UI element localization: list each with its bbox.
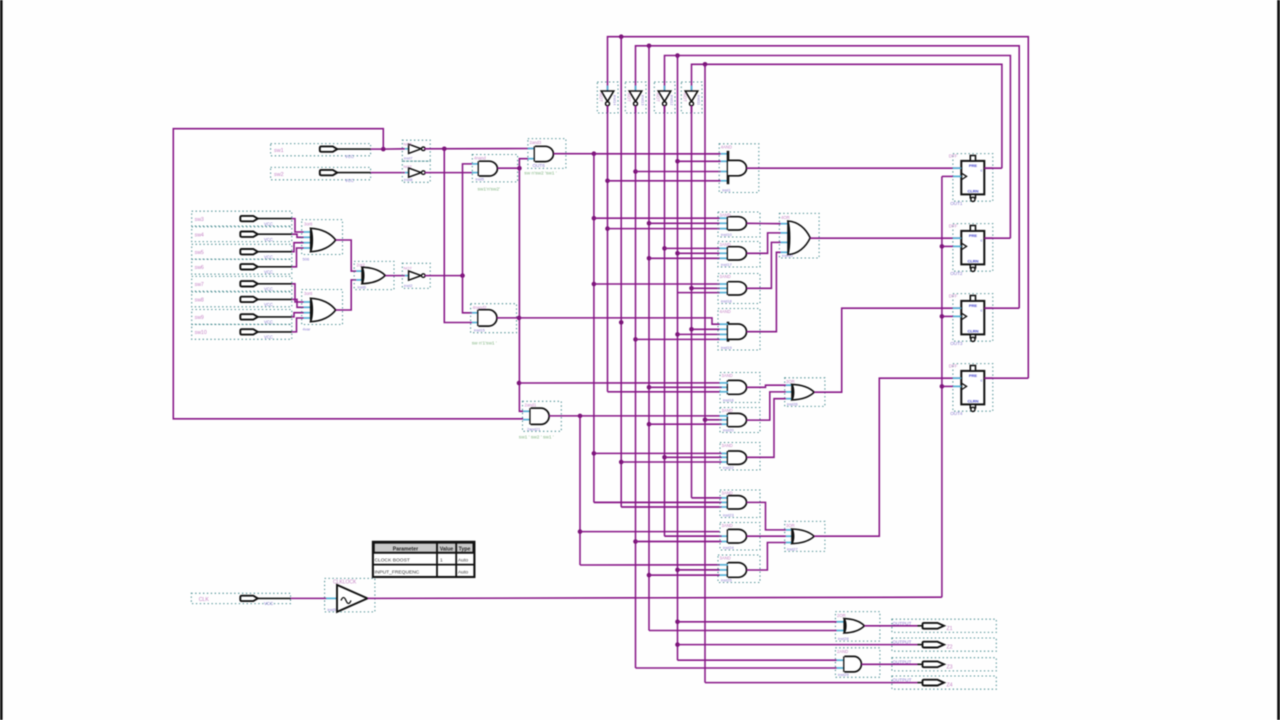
junction rail x=692 y=288 — [689, 286, 694, 291]
svg-text:4nand2: 4nand2 — [473, 305, 488, 310]
wire D out to OR1.in3 — [747, 242, 781, 288]
junction rail x=621 y=322 — [619, 320, 624, 325]
wire input to inst18 y=284 — [594, 283, 720, 285]
wire K out to OR3.in3 — [747, 543, 786, 571]
junction rail x=608 y=229 — [605, 226, 610, 231]
svg-text:sw1'n'sw2': sw1'n'sw2' — [478, 187, 501, 193]
svg-text:3or8: 3or8 — [304, 291, 313, 296]
parameter table — [373, 542, 475, 577]
wire to output Z1 — [864, 625, 917, 627]
svg-text:Auto: Auto — [458, 558, 468, 564]
wire OR1 output to FF2 D — [810, 237, 961, 239]
svg-text:VCC: VCC — [264, 287, 273, 292]
junction 2and1 net — [578, 414, 583, 419]
and-gate 4AND inst1 — [719, 144, 759, 193]
svg-text:PRE: PRE — [969, 233, 978, 238]
junction rail x=664 y=457 — [662, 455, 667, 460]
svg-text:sw8: sw8 — [195, 298, 204, 304]
and-gate 2and (inst29) — [835, 648, 880, 678]
svg-text:CLRN: CLRN — [967, 188, 978, 193]
wire sw10 to or-gate — [292, 318, 311, 332]
junction tap on feedback net q1 — [703, 62, 708, 67]
wire input to inst20 y=420 — [705, 419, 722, 421]
svg-text:NOT: NOT — [682, 93, 687, 102]
junction rail x=678 y=161 — [675, 159, 680, 164]
svg-text:inst29: inst29 — [838, 672, 849, 677]
wire rail 4nand net (x=519) — [519, 159, 528, 412]
inverter inst8 (sw2') — [402, 161, 430, 182]
wire gate inst23 in1/in3 from rail ends — [594, 498, 720, 507]
and-gate 3AND inst16 — [720, 373, 760, 403]
junction tap on feedback net q4 — [619, 34, 624, 39]
input pin sw5 — [192, 244, 292, 259]
svg-text:PRE: PRE — [969, 163, 978, 168]
svg-text:inst27: inst27 — [787, 546, 798, 551]
junction rail x=621 y=462 — [619, 460, 624, 465]
wire vertical rail x=678 — [677, 58, 679, 661]
svg-text:Z2: Z2 — [947, 645, 953, 651]
wire rail sw1' down to 4nand2 — [444, 149, 472, 323]
svg-text:OUTPUT: OUTPUT — [893, 678, 912, 683]
wire input to inst19 y=339 — [636, 338, 720, 340]
svg-text:INPUT_FREQUENC: INPUT_FREQUENC — [375, 570, 420, 576]
and-gate 3AND inst20 — [720, 408, 760, 433]
wire E out to OR1.in4 — [747, 252, 781, 331]
wire vertical rail x=621 — [620, 39, 622, 507]
input pin sw2 — [271, 167, 405, 183]
junction rail519 at 4nand2 out — [517, 316, 522, 321]
svg-text:PRE: PRE — [969, 373, 978, 378]
svg-text:CLRN: CLRN — [967, 328, 978, 333]
inverter (rotated) inst11 — [681, 82, 702, 113]
input pin sw7 — [192, 276, 292, 291]
wire sw3 to or-gate — [292, 219, 311, 232]
svg-text:inst28: inst28 — [838, 636, 849, 641]
wire B out to OR1.in1 — [747, 222, 781, 224]
junction rail519 branch to and gate F — [517, 381, 522, 386]
svg-text:sw3: sw3 — [195, 217, 204, 223]
wire to output Z4 — [705, 682, 918, 684]
svg-text:inst10: inst10 — [782, 253, 793, 258]
wire input to inst17 y=248 — [665, 247, 720, 249]
svg-text:OUT2: OUT2 — [950, 271, 963, 276]
svg-text:CLKLOCK: CLKLOCK — [333, 579, 357, 585]
wire input to inst10 y=218 — [594, 217, 720, 219]
wire input to inst19 y=329 — [692, 328, 720, 330]
wire feedback net q2 (FF to top inverter) — [665, 56, 1011, 239]
svg-text:inst26: inst26 — [787, 401, 798, 406]
svg-text:2and21: 2and21 — [527, 426, 541, 431]
svg-text:NOT: NOT — [655, 93, 660, 102]
junction rail x=649 y=424 — [647, 422, 652, 427]
svg-text:Z4: Z4 — [947, 683, 953, 689]
wire inst1 output to FF1 D — [747, 167, 962, 169]
wire inst7 output (sw1' net) — [424, 148, 535, 150]
wire 2and1 output to gate G — [549, 415, 719, 417]
svg-text:1: 1 — [440, 558, 443, 564]
svg-text:c: c — [981, 239, 983, 243]
svg-text:3AND: 3AND — [720, 213, 731, 218]
or-gate 3or8a (inst3) — [302, 220, 343, 262]
svg-text:3AND: 3AND — [722, 491, 733, 496]
wire G out to OR2.in2 — [747, 392, 786, 420]
wire input to inst24 y=536 — [665, 535, 722, 537]
svg-text:CLRN: CLRN — [967, 398, 978, 403]
input pin sw9 — [192, 310, 292, 325]
wire 4nand output to rail — [497, 167, 519, 169]
inverter inst7 (sw1') — [402, 140, 430, 161]
wire OUT6 output to inst1 — [553, 153, 719, 155]
label green sw1'n'sw2' — [478, 187, 501, 193]
svg-text:VCC: VCC — [264, 237, 273, 242]
input pin sw4 — [192, 227, 292, 242]
svg-text:sw6: sw6 — [195, 265, 204, 271]
junction clock at FF2 — [940, 244, 953, 249]
svg-text:PRE: PRE — [969, 303, 978, 308]
or-gate 3or2a (inst26) to FF3 — [785, 378, 825, 407]
wire 4nand2 output to gate E — [497, 318, 720, 324]
svg-text:CLRN: CLRN — [967, 258, 978, 263]
svg-text:inst5: inst5 — [476, 177, 485, 182]
and-gate 2and1 (inst21) — [523, 401, 562, 431]
junction sw1' tap — [442, 147, 447, 152]
svg-text:Z1: Z1 — [947, 626, 953, 632]
svg-text:inst22: inst22 — [723, 465, 734, 470]
and-gate OUT6 (2and3) — [528, 139, 566, 169]
svg-text:VCC: VCC — [264, 270, 273, 275]
wire J out to OR3.in2 — [747, 535, 786, 537]
junction rail x=678 y=622 — [675, 620, 680, 625]
output pin Z2 — [892, 638, 996, 651]
wire input to inst1 y=172 — [636, 171, 721, 173]
wire H out to OR2.in3 — [747, 399, 786, 458]
svg-text:inst23: inst23 — [723, 512, 734, 517]
junction 4nand out — [517, 166, 522, 171]
wire gate inst25 in1 from rail 580 — [649, 565, 728, 575]
wire rail 2and1 net (x=580) — [580, 416, 720, 565]
svg-text:CLOCK BOOST: CLOCK BOOST — [375, 558, 410, 564]
svg-text:sw n'sw2 'sw1 ': sw n'sw2 'sw1 ' — [524, 170, 556, 176]
svg-text:sw1: sw1 — [274, 148, 284, 154]
svg-text:2and1: 2and1 — [525, 403, 537, 408]
wire sw6 to or-gate — [292, 248, 311, 267]
or-gate 2or (inst28) — [835, 612, 880, 642]
svg-text:3AND: 3AND — [720, 274, 731, 279]
svg-text:4AND: 4AND — [721, 144, 732, 149]
wire input to inst22 y=457 — [665, 456, 722, 458]
svg-text:sw4: sw4 — [195, 232, 204, 238]
svg-text:sw1 ' sw2 ' sw1 ': sw1 ' sw2 ' sw1 ' — [519, 435, 554, 441]
junction rail594 y=284 — [592, 282, 597, 287]
wire C out to OR1.in2 — [747, 233, 781, 253]
svg-text:DFF: DFF — [949, 224, 958, 229]
junction inst2 net — [460, 273, 465, 278]
and-gate 4nand2 (inst15) — [471, 304, 517, 333]
wire gate inst24 in2 from rail 664 — [636, 536, 720, 541]
wire or-a to or-c — [336, 240, 363, 271]
svg-text:3AND: 3AND — [720, 556, 731, 561]
junction tap on feedback net q2 — [675, 53, 680, 58]
svg-text:inst1: inst1 — [722, 187, 731, 192]
and-gate 3AND inst25 — [718, 555, 760, 583]
input pin sw3 — [192, 211, 292, 226]
wire input to inst25 y=570 — [678, 569, 720, 571]
junction tap on feedback net q3 — [647, 44, 652, 49]
wire I out to OR3.in1 — [747, 502, 786, 530]
svg-text:NOT: NOT — [404, 142, 413, 147]
wire input to inst20 y=424 — [649, 423, 722, 425]
wire vertical rail x=664 — [664, 106, 666, 536]
junction rail580 J tap — [578, 529, 720, 534]
frame edge left — [0, 0, 3, 720]
svg-text:inst15: inst15 — [474, 328, 485, 333]
wire OUT3 Q output — [984, 307, 1019, 309]
wire vertical rail x=649 — [648, 48, 650, 631]
and-gate 4nand (inst5) — [472, 155, 518, 182]
svg-text:CLK: CLK — [199, 597, 210, 603]
output pin Z1 — [892, 619, 996, 632]
svg-text:sw7: sw7 — [195, 282, 204, 288]
wire OUT2 Q output — [984, 237, 1010, 239]
wire input to inst18 y=293 — [678, 292, 720, 294]
junction rail x=678 y=570 — [675, 568, 680, 573]
junction rail x=678 y=253 — [675, 251, 680, 256]
wire input to inst22 y=462 — [621, 461, 721, 463]
svg-text:OUT6: OUT6 — [533, 163, 546, 168]
svg-text:VCC: VCC — [345, 178, 354, 183]
and-gate 3AND inst23 — [720, 490, 760, 518]
flip-flop DFF OUT2 — [949, 224, 993, 276]
and-gate 3AND inst24 — [720, 523, 760, 551]
svg-text:2or2: 2or2 — [357, 263, 366, 268]
wire input to inst17 y=253 — [678, 252, 720, 254]
svg-text:inst20: inst20 — [723, 427, 734, 432]
svg-text:c: c — [981, 309, 983, 313]
svg-text:Z3: Z3 — [947, 664, 953, 670]
wire input to inst1 y=154 — [594, 153, 721, 155]
wire sw9 to or-gate — [292, 313, 311, 317]
wire input to inst23 y=507 — [621, 506, 721, 508]
wire to output Z3 — [861, 663, 917, 665]
wire branch to gate inst16 in1 — [519, 382, 720, 384]
svg-text:sw n'1'sw1 ': sw n'1'sw1 ' — [472, 341, 497, 347]
or-gate 4or2 (inst9) to FF2 — [779, 213, 819, 258]
wire vertical rail x=608 — [607, 106, 609, 392]
svg-text:3AND: 3AND — [722, 523, 733, 528]
frame edge right — [1277, 0, 1280, 720]
svg-text:c: c — [981, 169, 983, 173]
label green sw1'sw2'sw1 — [519, 435, 554, 441]
wire rail649 to OR4.in2 — [649, 630, 837, 632]
wire sw1 feedback loop (big rectangle) — [173, 129, 523, 419]
junction rail x=649 y=575 — [647, 573, 652, 578]
wire input to inst16 y=387 — [649, 386, 722, 388]
wire rail inst2 net (x=462) — [463, 164, 472, 313]
wire input to inst10 y=229 — [608, 228, 720, 230]
input pin sw1 — [271, 144, 381, 159]
svg-text:inst25: inst25 — [721, 577, 732, 582]
and-gate 3AND inst22 — [720, 443, 760, 471]
svg-text:inst16: inst16 — [723, 397, 734, 402]
svg-text:4var: 4var — [303, 326, 311, 331]
svg-text:DFF: DFF — [949, 154, 958, 159]
svg-text:Value: Value — [440, 547, 454, 553]
svg-text:c: c — [981, 379, 983, 383]
junction rail x=636 y=172 — [633, 169, 638, 174]
wire feedback net q3 (FF to top inverter) — [636, 46, 1020, 308]
inverter inst2 — [402, 263, 430, 288]
junction OUT6 net tap — [592, 151, 597, 156]
inverter (rotated) inst12 — [654, 82, 675, 113]
svg-text:inst10: inst10 — [721, 232, 732, 237]
junction rail x=608 y=181 — [605, 179, 610, 184]
wire CLK to clkboost buffer — [291, 597, 338, 599]
svg-text:VCC: VCC — [264, 320, 273, 325]
junction sw1 node — [381, 147, 386, 152]
svg-text:2AND: 2AND — [837, 649, 848, 654]
wire rail OUT6 net (x=594) — [594, 154, 720, 503]
wire input to inst23 y=498 — [692, 497, 722, 499]
wire sw8 to or-gate — [292, 299, 311, 307]
wire input to inst1 y=181 — [608, 180, 721, 182]
wire vertical rail x=692 — [691, 106, 693, 498]
or-gate 3or8b (inst4) — [302, 290, 343, 332]
inverter (rotated) inst14 — [597, 82, 618, 113]
svg-text:inst19: inst19 — [721, 345, 732, 350]
wire feedback net q4 (FF to top inverter) — [608, 37, 1029, 379]
wire rail635 end to AND5.in2 — [636, 667, 837, 669]
svg-text:inst5: inst5 — [328, 607, 337, 612]
junction clock at FF4 — [940, 384, 953, 389]
svg-text:sw2: sw2 — [274, 172, 284, 178]
junction rail x=705 y=420 — [703, 418, 708, 423]
svg-text:DFF: DFF — [949, 294, 958, 299]
wire input to inst24 y=542 — [636, 541, 722, 543]
svg-text:inst6: inst6 — [358, 284, 367, 289]
svg-text:Auto: Auto — [458, 570, 468, 576]
svg-text:sw9: sw9 — [195, 315, 204, 321]
and-gate 3AND inst10 — [718, 212, 760, 237]
svg-text:inst24: inst24 — [723, 545, 734, 550]
wire input to inst19 y=334 — [678, 333, 720, 335]
wire vertical rail x=705 — [704, 67, 706, 683]
svg-text:3or8: 3or8 — [304, 221, 313, 226]
wire inst8 output to 4nand — [425, 172, 472, 174]
wire to output Z2 — [678, 644, 918, 646]
junction rail x=649 y=223 — [647, 221, 652, 226]
junction rail x=692 y=329 — [689, 327, 694, 332]
svg-text:NOT: NOT — [626, 93, 631, 102]
svg-text:OUTPUT: OUTPUT — [893, 659, 912, 664]
svg-text:2OR: 2OR — [837, 613, 846, 618]
svg-text:inst11: inst11 — [697, 95, 702, 105]
svg-text:NOT: NOT — [404, 265, 413, 270]
svg-text:NOT: NOT — [598, 93, 603, 102]
svg-text:3AND: 3AND — [722, 408, 733, 413]
svg-text:inst17: inst17 — [721, 262, 732, 267]
wire input to inst23 y=502 — [594, 501, 722, 503]
wire input to inst17 y=258 — [649, 257, 720, 259]
svg-text:3AND: 3AND — [722, 373, 733, 378]
wire F out to OR2.in1 — [747, 385, 786, 387]
wire rail677 to OR4.in1 — [678, 621, 837, 623]
svg-text:inst12: inst12 — [670, 95, 675, 105]
input pin CLK — [191, 593, 290, 606]
svg-text:2and3: 2and3 — [530, 140, 542, 145]
svg-text:inst13: inst13 — [641, 95, 646, 105]
svg-text:4nand: 4nand — [474, 156, 486, 161]
svg-text:VCC: VCC — [264, 255, 273, 260]
svg-text:OUTPUT: OUTPUT — [893, 640, 912, 645]
svg-text:OUT4: OUT4 — [950, 411, 963, 416]
junction rail x=678 y=334 — [675, 332, 680, 337]
wire sw4 to or-gate — [292, 234, 311, 237]
svg-text:OUTPUT: OUTPUT — [893, 621, 912, 626]
flip-flop DFF OUT4 — [949, 364, 993, 416]
svg-text:sw5: sw5 — [195, 250, 204, 256]
wire input to inst1 y=161 — [678, 160, 721, 162]
wire OUT1 Q output — [984, 167, 1002, 169]
junction rail x=636 y=542 — [633, 539, 638, 544]
svg-text:inst8: inst8 — [404, 177, 413, 182]
svg-text:inst14: inst14 — [613, 95, 618, 106]
svg-text:VCC: VCC — [264, 221, 273, 226]
wire inst2 output — [425, 275, 463, 277]
svg-text:NOT: NOT — [404, 164, 413, 169]
and-gate 3AND inst18 — [718, 274, 760, 304]
svg-text:4AND: 4AND — [720, 309, 731, 314]
junction rail x=664 y=248 — [662, 246, 667, 251]
wire input to inst10 y=223 — [649, 222, 720, 224]
svg-text:3AND: 3AND — [722, 443, 733, 448]
svg-text:VCC: VCC — [345, 154, 354, 159]
wire gate inst20 stub in1 — [720, 415, 729, 417]
wire vertical rail x=636 — [635, 106, 637, 668]
wire input to inst22 y=453 — [594, 452, 722, 454]
svg-text:4OR: 4OR — [781, 215, 790, 220]
svg-text:OUT1: OUT1 — [950, 201, 963, 206]
and-gate 4AND inst19 — [718, 309, 760, 351]
svg-text:3AND: 3AND — [720, 242, 731, 247]
wire sw7 to or-gate — [292, 284, 311, 302]
svg-text:sw10: sw10 — [195, 330, 207, 336]
svg-text:506: 506 — [303, 256, 310, 261]
wire input to inst18 y=288 — [692, 287, 720, 289]
svg-text:Parameter: Parameter — [393, 547, 418, 553]
output pin Z3 — [892, 658, 996, 671]
input pin sw6 — [192, 259, 292, 274]
junction rail594 y=218 — [592, 216, 597, 221]
junction rail x=649 y=387 — [647, 385, 652, 390]
flip-flop DFF OUT1 — [949, 154, 993, 206]
junction rail x=678 y=645 — [675, 642, 680, 647]
wire clock net — [368, 176, 953, 598]
label green sw1'sw2'sw1' — [524, 170, 556, 176]
svg-text:VCC: VCC — [264, 335, 273, 340]
inverter (rotated) inst13 — [625, 82, 646, 113]
svg-text:Type: Type — [459, 547, 471, 553]
wire sw5 to or-gate — [292, 243, 311, 252]
junction rail x=649 y=258 — [647, 256, 652, 261]
wire sw1 to inverter — [381, 148, 405, 150]
wire OUT4 Q output — [984, 377, 1028, 379]
svg-text:DFF: DFF — [949, 364, 958, 369]
svg-text:OUT3: OUT3 — [950, 341, 963, 346]
wire gate inst16 stub — [608, 383, 729, 392]
label green sw n'1'sw1' — [472, 341, 497, 347]
flip-flop DFF OUT3 — [949, 294, 993, 346]
svg-text:VCC: VCC — [264, 601, 273, 606]
